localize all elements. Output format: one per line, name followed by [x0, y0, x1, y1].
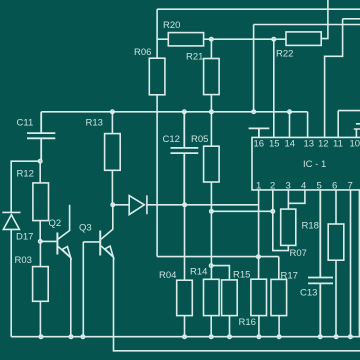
svg-text:10: 10	[350, 139, 360, 150]
svg-text:11: 11	[333, 139, 343, 150]
svg-text:R04: R04	[159, 270, 176, 281]
resistor R15	[222, 280, 238, 316]
svg-text:R18: R18	[302, 221, 319, 232]
wire pin15 vertical from R22	[273, 39, 275, 137]
node C12 top	[183, 110, 187, 114]
wire y265.6 to R15	[211, 266, 229, 280]
svg-text:R14: R14	[190, 267, 207, 278]
node C11/R12	[38, 159, 42, 163]
wire right y110.6 to pin11	[338, 111, 360, 138]
resistor R21	[204, 59, 220, 95]
wire pin14 drop	[289, 112, 291, 138]
svg-text:R17: R17	[281, 271, 298, 282]
svg-text:R20: R20	[163, 20, 180, 31]
wire IC pin3 lead	[287, 190, 289, 209]
wire R20 left lead	[157, 38, 168, 40]
resistor R06	[149, 58, 165, 95]
svg-text:C11: C11	[17, 118, 34, 129]
node R21/R05	[210, 110, 214, 114]
svg-text:Q2: Q2	[49, 218, 62, 229]
svg-text:7: 7	[348, 181, 353, 192]
wire vertical x253.6	[253, 25, 255, 112]
resistor R17	[278, 257, 280, 280]
wire vertical from top rail to R06	[156, 9, 158, 58]
svg-text:R16: R16	[239, 317, 256, 328]
svg-text:C12: C12	[163, 134, 180, 145]
diode D17	[2, 212, 20, 229]
node R22/pin15	[272, 37, 276, 41]
svg-text:R22: R22	[276, 49, 293, 60]
resistor R18	[335, 190, 337, 224]
resistor R16	[258, 257, 260, 280]
capacitor C13	[308, 190, 333, 337]
resistor R07	[281, 209, 296, 245]
resistor R12	[39, 161, 41, 183]
wire bottom bus	[11, 336, 360, 338]
node R13 top	[111, 110, 115, 114]
node bus Q3b	[81, 335, 85, 339]
wire IC pin2 to R07 bottom	[273, 190, 289, 251]
resistor R22	[286, 32, 321, 46]
svg-text:R15: R15	[233, 270, 250, 281]
svg-text:R05: R05	[191, 134, 208, 145]
svg-text:16: 16	[254, 139, 265, 150]
svg-text:R12: R12	[17, 169, 34, 180]
node x253.6	[252, 110, 256, 114]
wire mid rail y111.8	[41, 111, 307, 113]
transistor Q2	[58, 205, 70, 239]
resistor R03	[39, 241, 41, 266]
resistor R04	[184, 205, 186, 280]
wire right edge vertical below IC	[358, 190, 360, 337]
wire top-right jog to pin12	[325, 19, 360, 138]
node D anode	[111, 203, 115, 207]
wire top rail y9	[157, 8, 360, 10]
wire R20 right to R22	[204, 38, 286, 40]
node pin2	[271, 210, 275, 214]
svg-text:4: 4	[301, 181, 306, 192]
wire IC pin4 jog	[288, 190, 305, 203]
node bus R03	[39, 335, 43, 339]
node bus pin7	[349, 335, 353, 339]
wire R21 top lead	[210, 39, 212, 58]
svg-text:D17: D17	[16, 232, 33, 243]
node bus R17	[277, 335, 281, 339]
transistor Q3	[101, 205, 113, 240]
svg-text:C13: C13	[300, 288, 317, 299]
wire pin13 drop	[307, 112, 309, 138]
node pin1/R16	[257, 255, 261, 259]
node bus R14	[209, 335, 213, 339]
svg-text:1: 1	[256, 181, 261, 192]
svg-text:12: 12	[318, 139, 329, 150]
op-amp IC-1 box	[252, 137, 360, 190]
wire Q2 base	[40, 240, 56, 242]
node R14 top	[209, 264, 213, 268]
diode D mid	[113, 195, 259, 214]
svg-text:R07: R07	[290, 248, 307, 259]
wire R21 bottom lead	[210, 95, 212, 112]
node pin14	[288, 110, 292, 114]
node bus R04	[183, 335, 187, 339]
node bus R18	[334, 335, 338, 339]
node bus Q2e	[69, 335, 73, 339]
svg-text:15: 15	[269, 139, 280, 150]
svg-text:IC - 1: IC - 1	[303, 159, 326, 170]
svg-text:R21: R21	[186, 52, 203, 63]
wire R05 bottom to R14	[210, 182, 212, 279]
resistor R13	[111, 112, 113, 134]
wire R22 right lead up	[321, 0, 328, 39]
node bus R15	[228, 335, 232, 339]
wire D17 to bottom bus	[10, 229, 12, 336]
svg-text:6: 6	[332, 181, 337, 192]
capacitor C11	[27, 112, 55, 161]
node R05 pin2 left	[210, 210, 214, 214]
svg-text:R03: R03	[15, 255, 32, 266]
svg-text:13: 13	[304, 139, 315, 150]
node bus R16	[257, 335, 261, 339]
wire R06 bottom long vertical to lower row	[156, 95, 158, 257]
resistor R14	[204, 279, 220, 315]
wire y161.2 left stub	[11, 161, 40, 212]
wire lower row y256.6 to R17 corner	[157, 256, 279, 258]
svg-text:14: 14	[285, 139, 296, 150]
svg-text:R06: R06	[134, 47, 151, 58]
resistor R05	[210, 112, 212, 146]
svg-text:2: 2	[270, 181, 275, 192]
node R12/Q2/R03	[39, 240, 43, 244]
capacitor C12	[171, 112, 199, 205]
svg-text:Q3: Q3	[79, 223, 92, 234]
svg-text:R13: R13	[86, 118, 103, 129]
svg-text:3: 3	[286, 181, 291, 192]
svg-text:5: 5	[317, 181, 322, 192]
capacitor bar at pin16	[249, 128, 270, 137]
wire y24.5 rail	[254, 24, 360, 26]
node C12/R04	[183, 203, 187, 207]
wire IC pin1 drop	[258, 190, 260, 257]
node bus C13	[318, 335, 322, 339]
wire pin7 drop	[350, 190, 352, 337]
resistor R20	[168, 33, 203, 46]
capacitor stub at pin10	[354, 124, 360, 138]
wire y211.3 pin2 link	[211, 210, 272, 212]
node R20/R21	[210, 37, 214, 41]
